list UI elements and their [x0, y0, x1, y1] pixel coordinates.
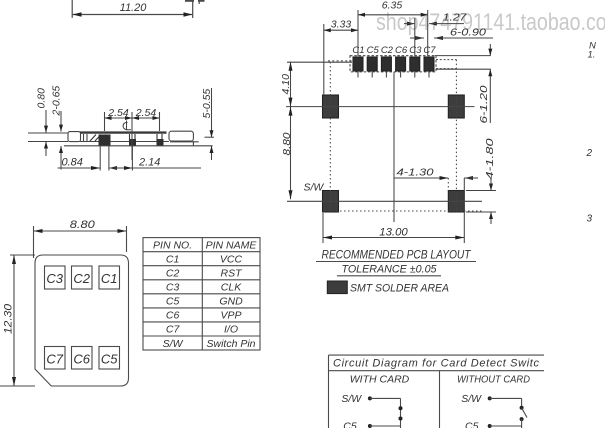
corner pad upper-left [323, 95, 339, 118]
dim 4-1.80 extension lines [466, 190, 496, 192]
svg-text:6-0.90: 6-0.90 [450, 27, 486, 39]
dim 6-1.20 arrows [489, 44, 491, 56]
svg-text:4-1.80: 4-1.80 [484, 138, 496, 179]
svg-text:C6: C6 [73, 352, 90, 367]
dim line 2.54 [105, 117, 160, 119]
with-card wire S/W [368, 396, 372, 400]
svg-text:12.30: 12.30 [3, 303, 15, 334]
smt pad C2 [381, 57, 391, 71]
central vertical line [393, 72, 395, 222]
right housing right edge [192, 141, 194, 146]
svg-text:C6: C6 [166, 310, 180, 322]
svg-text:RST: RST [221, 268, 244, 280]
svg-text:GND: GND [219, 296, 243, 308]
svg-text:2.54: 2.54 [107, 107, 129, 119]
without-card C5 wire [488, 424, 492, 428]
row lines [143, 251, 260, 253]
smt pad C3 [410, 57, 420, 71]
svg-text:C7: C7 [166, 324, 181, 336]
svg-text:CLK: CLK [221, 282, 242, 294]
pcb seating line [64, 145, 213, 147]
svg-text:13.00: 13.00 [379, 227, 408, 239]
pad C2 [72, 266, 93, 289]
SECTION: card footprint [0, 226, 129, 386]
lower pads centerline [287, 200, 482, 202]
mid contact marks [130, 134, 163, 141]
SECTION: side view [28, 131, 213, 146]
right raised housing [169, 131, 193, 141]
dim 1.27 [414, 18, 416, 56]
pad C3 [45, 266, 66, 289]
body bottom edge [80, 141, 169, 143]
svg-text:C5: C5 [166, 296, 180, 308]
svg-text:4.10: 4.10 [280, 74, 292, 95]
smt pad C1 [353, 57, 363, 71]
pad C6 [72, 347, 93, 370]
svg-text:WITH CARD: WITH CARD [350, 374, 410, 386]
svg-text:SMT SOLDER AREA: SMT SOLDER AREA [350, 283, 449, 295]
table outer border [143, 238, 260, 350]
svg-text:8.80: 8.80 [70, 219, 96, 231]
smt legend square [327, 281, 347, 294]
underline 1 [316, 261, 476, 263]
svg-text:I/O: I/O [224, 324, 238, 336]
body top edge [80, 131, 167, 133]
smt pad C6 [396, 57, 406, 71]
svg-text:1.27: 1.27 [443, 12, 468, 24]
pad C5 [99, 347, 120, 370]
svg-text:C2: C2 [381, 45, 394, 56]
card body outline with chamfer [35, 255, 129, 386]
dim line 8.80 [34, 230, 127, 232]
without-card open switch [520, 406, 524, 410]
svg-text:6.35: 6.35 [382, 0, 403, 12]
dim line 12.30 [13, 255, 15, 386]
contact 2 dark foot [129, 139, 136, 146]
svg-text:Circuit Diagram for Card Detec: Circuit Diagram for Card Detect Switc [333, 358, 540, 370]
extension line right [192, 0, 194, 18]
svg-text:2-0.65: 2-0.65 [51, 86, 63, 117]
svg-text:C2: C2 [73, 271, 90, 286]
corner pad upper-right [448, 95, 464, 118]
dim 6-1.20 extension lines [435, 55, 491, 57]
dashed vertical right column [455, 60, 457, 211]
arrowhead left [73, 12, 82, 17]
column divider [439, 371, 441, 428]
svg-text:C5: C5 [465, 421, 479, 428]
extension line left [71, 0, 73, 18]
svg-text:C5: C5 [367, 45, 380, 56]
svg-text:PIN NO.: PIN NO. [153, 240, 192, 252]
dim 6.35 extension lines [357, 10, 359, 56]
SECTION: pin table [143, 238, 260, 350]
svg-text:VPP: VPP [220, 310, 241, 322]
dim line 3.33 [324, 29, 358, 31]
dim line 6.35 [358, 14, 428, 16]
right housing underline [170, 141, 199, 143]
svg-text:S/W: S/W [163, 338, 184, 350]
stub lines below small pads [358, 71, 429, 78]
SECTION: circuit table [329, 355, 545, 428]
svg-text:2: 2 [586, 148, 593, 159]
svg-text:TOLERANCE ±0.05: TOLERANCE ±0.05 [342, 264, 438, 276]
table top line [329, 354, 545, 356]
contact 3 dark foot [157, 139, 164, 146]
bottom extension lines [99, 146, 101, 171]
svg-text:C1: C1 [352, 45, 364, 56]
svg-text:C5: C5 [343, 421, 357, 428]
left contact slot [84, 134, 88, 142]
dim line 13.00 [323, 237, 464, 239]
hatch block [90, 135, 106, 142]
dim 12.30 extension lines [10, 254, 35, 256]
dim 2.54 2.54 extension lines [104, 112, 106, 131]
dim 4.10 / 8.80 vertical line [290, 62, 292, 200]
svg-text:C3: C3 [46, 271, 63, 286]
svg-text:3: 3 [587, 214, 593, 225]
svg-text:C7: C7 [46, 352, 63, 367]
dim 3.33 extension line [323, 24, 325, 95]
with-card switch contacts [399, 406, 403, 410]
svg-text:8.80: 8.80 [281, 132, 293, 155]
dashed vertical left column [329, 62, 331, 211]
svg-text:C6: C6 [395, 45, 408, 56]
dim line 0.84 [58, 167, 101, 169]
svg-text:S/W: S/W [461, 393, 482, 405]
svg-text:2.14: 2.14 [138, 157, 160, 169]
left reference tick at pad row level [287, 61, 352, 63]
svg-text:WITHOUT CARD: WITHOUT CARD [457, 374, 530, 386]
table left border [328, 355, 330, 428]
svg-text:C1: C1 [166, 254, 179, 266]
dim 13.00 extension lines [322, 213, 324, 243]
smt pad C7 [424, 57, 434, 71]
smt pad C5 [367, 57, 377, 71]
with-card C5 wire [368, 424, 372, 428]
column divider [201, 238, 203, 350]
corner pad lower-left [323, 191, 339, 213]
SECTION: side view dimensions [44, 88, 214, 171]
svg-text:Switch Pin: Switch Pin [206, 338, 255, 350]
svg-text:0.80: 0.80 [36, 88, 48, 109]
contact 1 dark foot [99, 135, 111, 146]
SECTION: pcb layout [286, 10, 496, 243]
dim 4-1.80 arrows [490, 179, 492, 191]
svg-text:3.33: 3.33 [331, 19, 352, 31]
dashed bottom outline [324, 210, 482, 212]
upper pads centerline [286, 106, 475, 108]
svg-text:1.: 1. [588, 50, 596, 61]
svg-text:S/W: S/W [341, 393, 362, 405]
title row bottom line [329, 370, 545, 372]
svg-text:C5: C5 [101, 352, 118, 367]
svg-text:VCC: VCC [220, 254, 243, 266]
svg-text:0.84: 0.84 [62, 157, 83, 169]
dashed extension left of pad row [328, 60, 352, 62]
SECTION: top dimension 11.20 [72, 0, 204, 18]
cut-off view remnant marks [185, 0, 194, 2]
dashed extensions right of pad row [436, 59, 456, 61]
dim 5-0.55 [211, 88, 213, 137]
centerline symbol [123, 121, 131, 130]
svg-text:C2: C2 [166, 268, 180, 280]
body left cap [68, 132, 81, 142]
dim 2-0.65 arrows [60, 111, 62, 132]
pad C1 [99, 266, 120, 289]
dim 0.80 arrows [45, 110, 47, 133]
svg-text:C3: C3 [166, 282, 180, 294]
arrowhead right [184, 12, 193, 17]
svg-text:C3: C3 [409, 45, 422, 56]
lead top line [28, 132, 68, 134]
pad C7 [45, 347, 66, 370]
dash-dot outline around pad row [350, 56, 436, 72]
without-card wire S/W [488, 396, 492, 400]
dim 8.80 extension lines [33, 226, 35, 258]
svg-text:4-1.30: 4-1.30 [397, 167, 434, 179]
svg-text:11.20: 11.20 [120, 2, 148, 14]
svg-text:C1: C1 [101, 271, 118, 286]
dim 2.14 arrows [109, 166, 117, 170]
underline 2 [337, 275, 441, 277]
dimension line 11.20 [73, 14, 193, 16]
svg-text:6-1.20: 6-1.20 [478, 85, 490, 123]
svg-text:PIN NAME: PIN NAME [206, 240, 258, 252]
svg-text:2.54: 2.54 [135, 107, 157, 119]
dim 4-1.30 [394, 177, 448, 179]
lead bottom line [28, 141, 68, 143]
dim 6-0.90 [415, 36, 424, 40]
svg-text:5-0.55: 5-0.55 [201, 89, 213, 119]
corner pad lower-right [448, 191, 464, 213]
svg-text:C7: C7 [423, 45, 436, 56]
svg-text:RECOMMENDED PCB LAYOUT: RECOMMENDED PCB LAYOUT [322, 248, 472, 262]
svg-text:S/W: S/W [304, 182, 325, 194]
